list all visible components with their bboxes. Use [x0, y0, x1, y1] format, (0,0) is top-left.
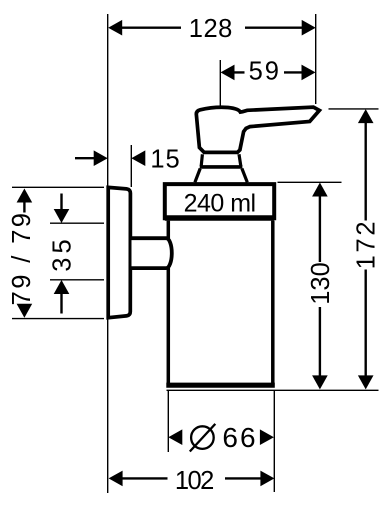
dimension 59 line	[234, 71, 302, 73]
extension line bottle right below	[273, 390, 275, 492]
pump head and lever outline	[196, 107, 319, 152]
dimension 102 arrow left	[109, 471, 123, 487]
svg-text:128: 128	[189, 15, 233, 43]
bottle body bottom edge	[166, 383, 274, 388]
dimension 128 arrow right	[302, 20, 316, 36]
dimension 79/79 line	[23, 202, 25, 212]
dimension 128 line	[122, 27, 302, 29]
dimension 130 arrow up	[312, 183, 328, 197]
dimension 172 arrow down	[358, 375, 374, 389]
dimension 79/79 arrow down	[17, 304, 33, 318]
dimension 35 line	[60, 194, 62, 314]
svg-text:130: 130	[307, 262, 335, 305]
bottle label band bottom thick edge	[165, 215, 274, 220]
pump collar sides	[201, 154, 241, 166]
bracket arm with rounded cap	[132, 238, 172, 268]
dimension 130 line	[319, 196, 321, 376]
dimension 15 arrow left (pointing right)	[94, 150, 108, 166]
bottle label band	[165, 184, 274, 218]
dimension 130 arrow down	[312, 375, 328, 389]
dimension 172 arrow up	[358, 109, 374, 123]
extension line plate top (79/79 top)	[12, 186, 104, 188]
dimension 35 arrow down	[54, 209, 70, 223]
dimension diameter 66 arrow left	[168, 429, 182, 445]
extension line bottle top (130 top)	[278, 181, 342, 183]
dimension 102 line	[123, 477, 261, 479]
svg-text:79 / 79: 79 / 79	[8, 211, 36, 306]
extension line wall (left vertical)	[107, 14, 109, 493]
svg-text:15: 15	[150, 145, 180, 173]
pump collar bottom line	[200, 165, 243, 169]
dimension 128 arrow left	[108, 20, 122, 36]
svg-text:102: 102	[175, 467, 213, 495]
dimension 172 line	[365, 123, 367, 376]
dimension 59 arrow left	[221, 65, 235, 81]
extension line plate front (x=131)	[130, 145, 132, 187]
extension line bottle left below	[167, 390, 169, 452]
wall plate	[108, 187, 130, 317]
dimension 15 arrow right (pointing left)	[131, 150, 145, 166]
svg-text:66: 66	[222, 422, 257, 453]
dimension 15 line	[75, 157, 95, 159]
svg-text:59: 59	[249, 58, 281, 86]
extension line spout tip (right vertical top)	[315, 14, 317, 104]
svg-text:35: 35	[48, 235, 76, 271]
svg-text:172: 172	[353, 219, 381, 270]
dimension 79/79 arrow up	[17, 189, 33, 203]
extension line pump center (x=220)	[219, 60, 221, 106]
svg-text:240 ml: 240 ml	[184, 190, 256, 218]
pump skirt sides	[195, 169, 247, 183]
extension line lever top (172 top)	[329, 108, 379, 110]
bottle body sides	[168, 221, 272, 386]
extension line plate bottom (79/79 bottom)	[12, 318, 104, 320]
dimension 102 arrow right	[260, 471, 274, 487]
diameter symbol	[191, 426, 214, 449]
extension line 35 bottom	[50, 279, 104, 281]
dimension 59 arrow right	[302, 65, 316, 81]
dimension 35 arrow up	[54, 280, 70, 294]
extension line 35 top	[50, 222, 104, 224]
extension line bottom reference	[167, 389, 379, 391]
dimension diameter 66 arrow right	[260, 429, 274, 445]
